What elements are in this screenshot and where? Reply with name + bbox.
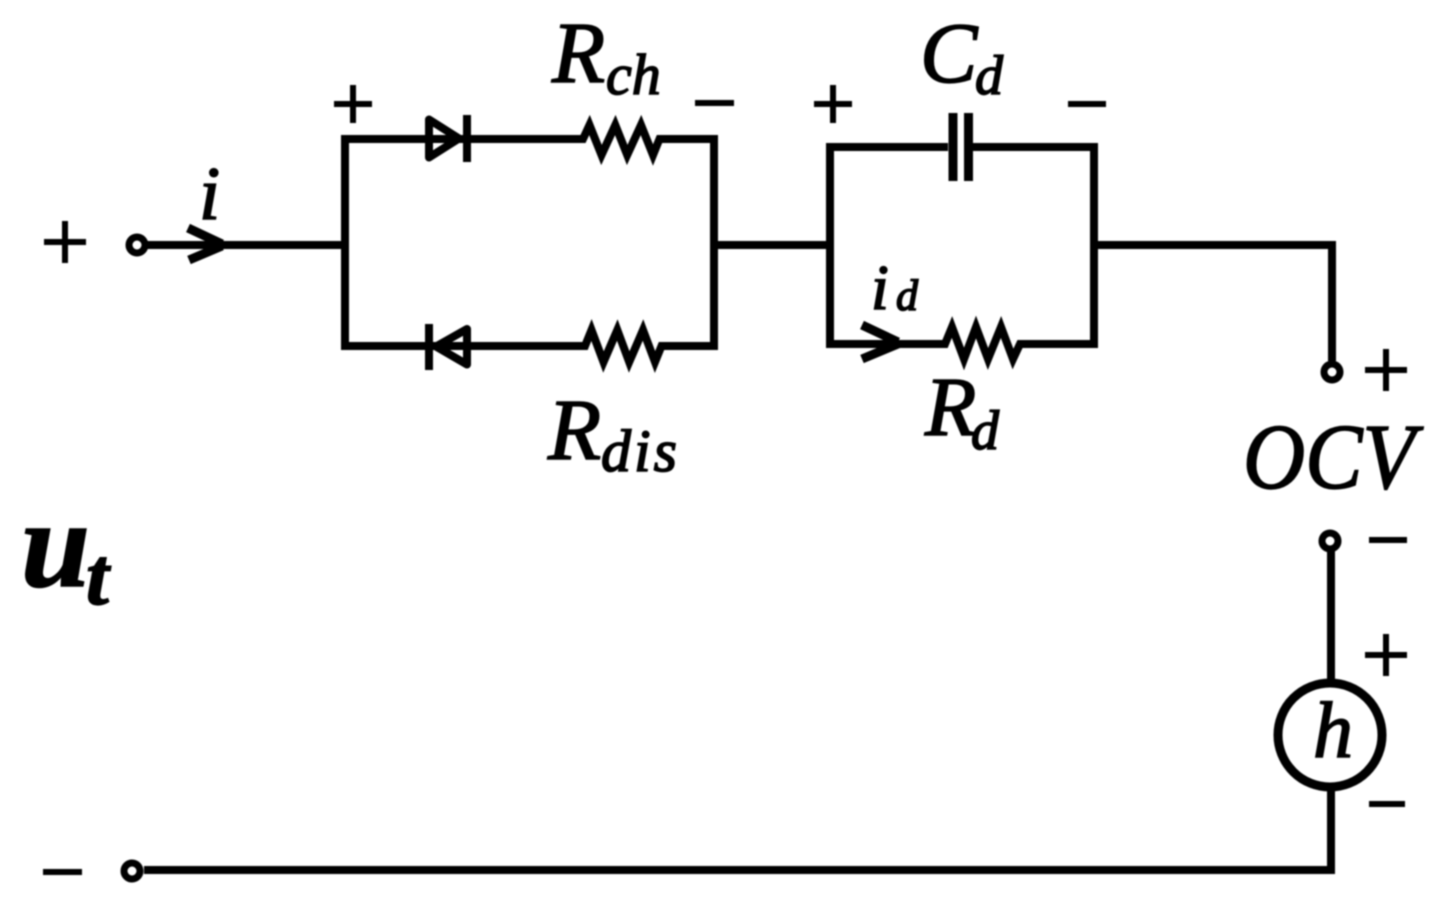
svg-text:i: i — [199, 152, 220, 236]
svg-text:d: d — [975, 45, 1004, 107]
svg-text:dis: dis — [601, 418, 680, 484]
svg-text:R: R — [551, 4, 605, 101]
svg-text:d: d — [971, 400, 1000, 462]
svg-text:R: R — [547, 381, 601, 478]
svg-text:t: t — [86, 531, 111, 622]
svg-text:u: u — [21, 476, 90, 613]
svg-text:OCV: OCV — [1243, 406, 1424, 509]
svg-text:h: h — [1313, 687, 1353, 775]
svg-text:d: d — [896, 271, 919, 320]
svg-text:C: C — [920, 5, 979, 101]
svg-text:i: i — [871, 252, 889, 323]
svg-text:ch: ch — [606, 42, 661, 107]
svg-text:R: R — [924, 361, 976, 454]
